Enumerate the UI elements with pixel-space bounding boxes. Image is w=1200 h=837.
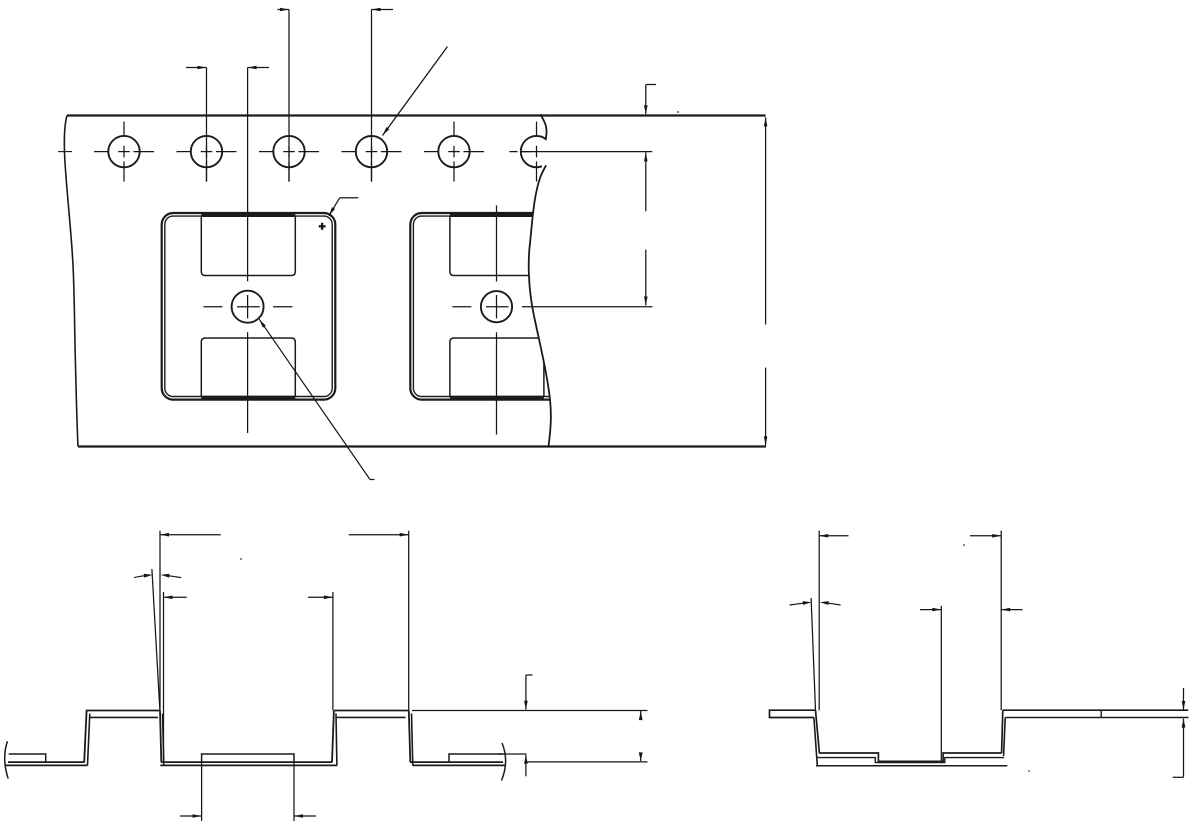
section A pitch dim left extension <box>159 531 161 711</box>
section A wall 1 <box>160 711 164 766</box>
section A depth arrows right <box>639 711 643 761</box>
pocket 1 outline with notches <box>162 213 336 400</box>
section A draft angle right arrow <box>161 574 182 578</box>
section A mid pedestal <box>202 754 294 762</box>
section B width dim left segment <box>819 535 848 537</box>
section A top width right arrow <box>308 596 333 598</box>
tape edge offset dim arrow <box>645 85 647 115</box>
extension line hole 6 center to F dim <box>521 151 652 153</box>
sprocket hole 4 <box>342 136 402 182</box>
tape edge offset dim foot <box>646 84 656 86</box>
sprocket hole 2 <box>177 136 237 182</box>
section A wall 2 <box>332 711 337 766</box>
section B width dim left extension <box>818 531 820 711</box>
tape top edge <box>67 114 766 116</box>
section A right break arc <box>502 743 506 781</box>
hole 6 center mark <box>509 122 536 182</box>
section A top width left arrow <box>164 596 187 598</box>
section B floor outer <box>816 758 1004 763</box>
section B draft angle right arrow <box>820 601 841 605</box>
section A pedestal width extension left <box>201 763 203 821</box>
section B thickness dim upper arrow <box>1183 688 1185 710</box>
section B channel extension line <box>940 606 942 762</box>
section A left floor <box>5 762 88 765</box>
sprocket hole 5 <box>424 122 484 182</box>
tape width dim lower segment <box>765 368 767 446</box>
section A plateau 2 <box>334 711 409 718</box>
section A depth dim upper foot <box>526 674 533 676</box>
section A mid pocket floor <box>160 762 337 765</box>
speck 3 <box>963 544 965 546</box>
sprocket hole 1 <box>94 122 154 182</box>
pocket 2 vertical centerline lower <box>496 332 498 434</box>
hole row tick on left break <box>58 151 72 153</box>
F dimension lower segment <box>645 250 647 306</box>
section A pitch dim left segment <box>160 534 221 536</box>
hole pitch dimension right arrow <box>372 9 394 11</box>
section A depth extension bottom <box>527 761 648 763</box>
section A top width extension left <box>163 592 165 762</box>
hole-to-pocket dimension right arrow <box>248 67 269 69</box>
pocket 1 vertical centerline upper <box>247 68 249 282</box>
section A wall draft extension line <box>152 569 160 711</box>
sprocket hole 3 <box>259 136 319 182</box>
section A right pedestal <box>449 754 503 762</box>
section A pedestal top extension <box>498 753 527 755</box>
leader line to sprocket hole 4 <box>383 47 448 136</box>
extension line hole 3 <box>288 10 290 182</box>
section A thickness arrow <box>525 755 527 777</box>
section A draft angle left arrow <box>134 574 153 578</box>
section A depth dim upper arrow <box>525 675 527 710</box>
pocket 2 center mark <box>452 295 508 318</box>
section B left flange <box>770 710 816 717</box>
section A pitch dim right segment <box>349 534 409 536</box>
leader to pocket 1 center hole <box>259 319 374 479</box>
speck 2 <box>240 558 242 560</box>
section B right wall <box>1002 710 1006 756</box>
section A pedestal width right arrow <box>294 815 316 817</box>
section B draft angle left arrow <box>790 601 812 605</box>
hole pitch dimension left arrow <box>278 9 290 11</box>
speck 4 <box>1028 770 1030 772</box>
section B left wall <box>814 710 820 765</box>
extension line hole 2 <box>206 68 208 182</box>
section A pedestal width left arrow <box>180 815 202 817</box>
left break line of tape <box>64 116 78 447</box>
tape width dim upper segment <box>765 117 767 324</box>
section B width dim right segment <box>970 535 1001 537</box>
extension line hole 4 <box>371 10 373 182</box>
hole-to-pocket dimension left arrow <box>186 67 207 69</box>
section B floor inner <box>819 753 1001 761</box>
section B wall draft extension <box>811 598 815 710</box>
section A wall 0 <box>84 711 90 766</box>
pocket 1 vertical centerline lower <box>247 332 249 433</box>
section B thickness dim lower arrow <box>1173 719 1186 778</box>
section A pedestal width extension right <box>293 763 295 821</box>
section A right floor <box>410 762 506 765</box>
section B bottom outline <box>816 765 1007 767</box>
pocket 2 center hole <box>481 291 512 322</box>
section B shelf dim right arrow <box>1001 609 1022 611</box>
section A pitch dim right extension <box>408 531 410 711</box>
section B width dim right extension <box>1000 531 1002 711</box>
pocket 2 outline with notches (torn) <box>410 213 584 400</box>
pocket 1 center hole <box>232 291 264 323</box>
extension line pocket 2 center to F dim <box>522 306 652 308</box>
tape tear break line lower <box>529 165 551 446</box>
section A wall 3 <box>409 711 413 766</box>
speck <box>677 111 679 113</box>
tape tear break line upper <box>540 114 546 140</box>
sprocket hole 6 (torn) <box>521 136 552 167</box>
leader to pocket 1 corner <box>329 198 358 216</box>
section A depth extension top <box>412 710 648 712</box>
pocket 1 center mark <box>203 295 292 318</box>
datum cross mark <box>319 223 326 230</box>
section A left break arc <box>5 741 9 779</box>
pocket 2 vertical centerline upper <box>496 205 498 281</box>
section A top width extension right <box>332 592 334 711</box>
section A left pedestal <box>9 754 46 762</box>
F dimension upper segment <box>645 152 647 211</box>
section A plateau 1 <box>86 711 160 718</box>
section B shelf dim left arrow <box>920 609 941 611</box>
tape bottom edge <box>78 445 766 447</box>
section B right flange <box>1003 710 1189 717</box>
